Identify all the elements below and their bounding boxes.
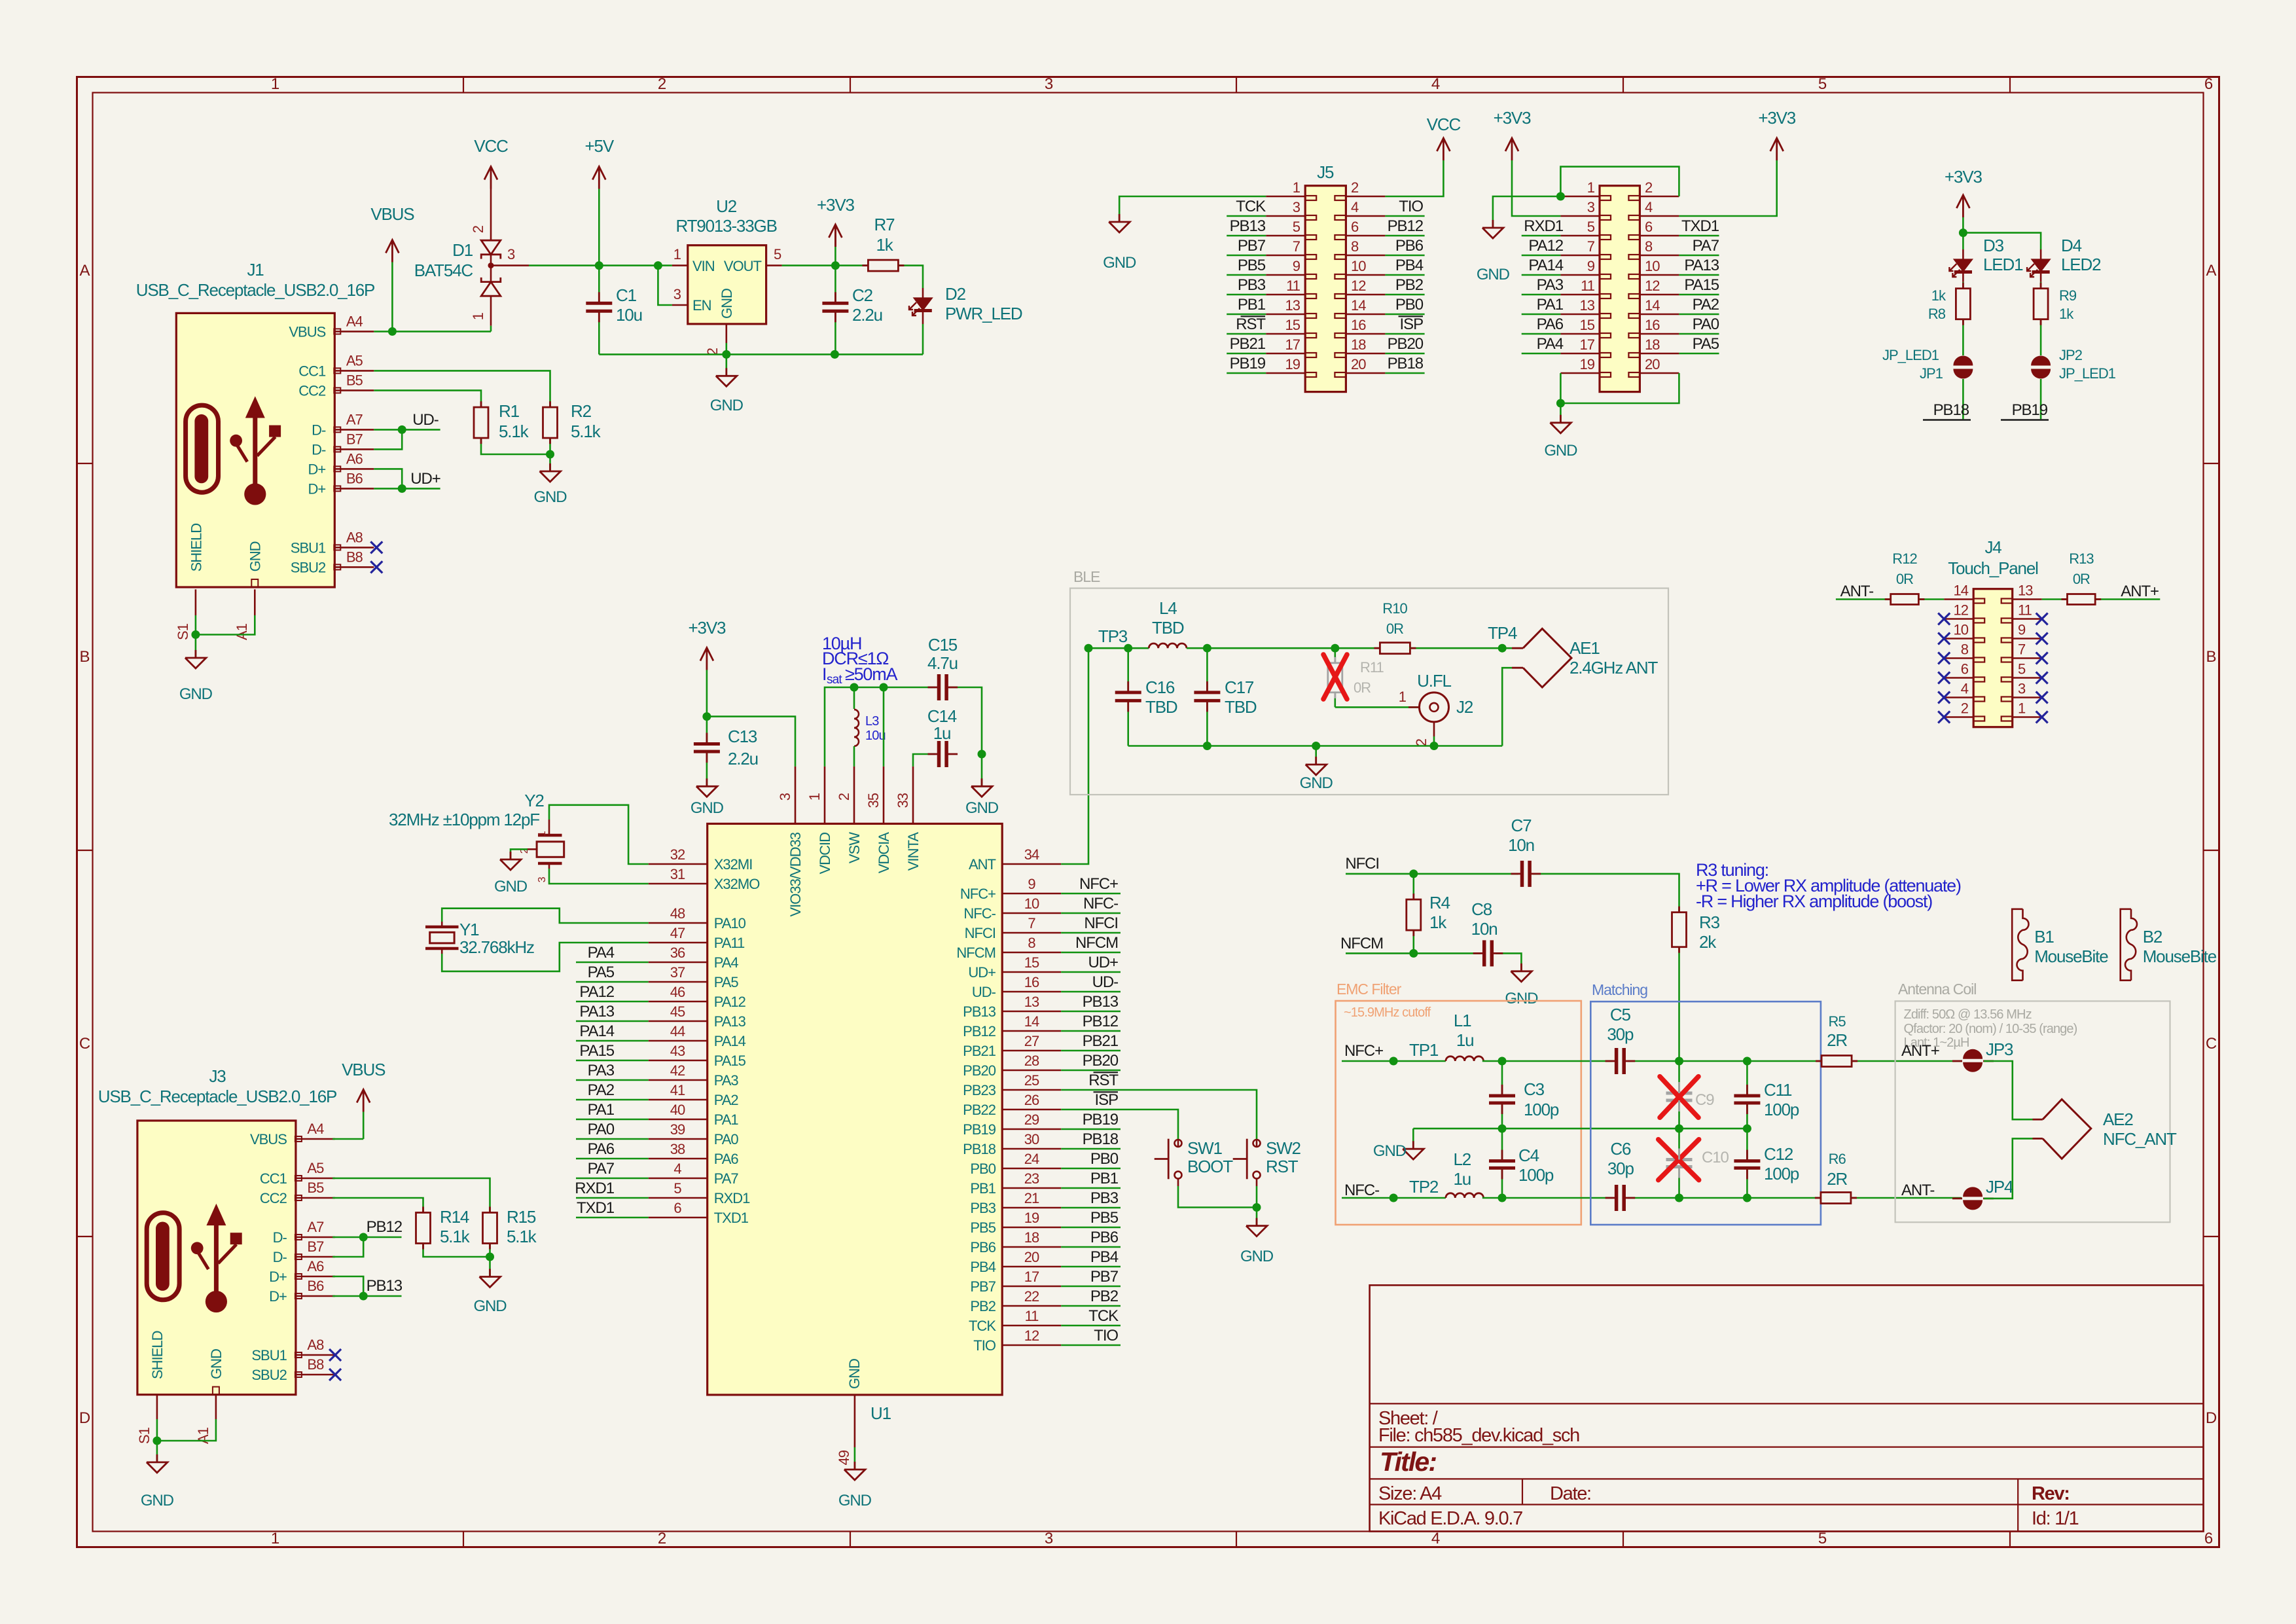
svg-text:TP4: TP4: [1488, 623, 1517, 643]
connector J3 USB-C receptacle icon: [147, 1213, 179, 1300]
svg-text:D+: D+: [269, 1288, 287, 1305]
junction: [1430, 742, 1439, 750]
resistor R5: [1821, 1056, 1852, 1067]
wire: [1628, 1060, 1821, 1062]
connector J5 pin 14: [1346, 314, 1385, 316]
junction: [398, 484, 406, 493]
svg-text:BLE: BLE: [1073, 568, 1100, 585]
wire: [576, 1138, 649, 1140]
svg-text:R13: R13: [2069, 550, 2094, 567]
wire: [2095, 598, 2160, 600]
wire: [1560, 167, 1679, 196]
diode D1 pin 3: [491, 264, 529, 266]
connector J5 pin 2: [1346, 196, 1385, 198]
wire: [1560, 403, 1562, 423]
svg-text:R9: R9: [2059, 287, 2077, 304]
MCU U1 pin 20 PB4: [1002, 1266, 1061, 1268]
connector J4 pin 10: [1944, 638, 1973, 640]
svg-text:C10: C10: [1702, 1149, 1729, 1166]
svg-text:TP3: TP3: [1098, 626, 1128, 646]
svg-text:A6: A6: [307, 1258, 324, 1274]
svg-text:1k: 1k: [1429, 912, 1447, 932]
svg-text:PA1: PA1: [588, 1101, 615, 1119]
wire: [1256, 1186, 1258, 1208]
MCU U1 pin 2 VSW: [853, 767, 855, 824]
wire: [1061, 932, 1121, 934]
svg-text:RST: RST: [1266, 1157, 1299, 1176]
svg-text:C2: C2: [852, 285, 873, 305]
svg-text:100p: 100p: [1524, 1100, 1559, 1119]
wire: [1851, 1197, 1962, 1199]
MCU U1 pin 5 RXD1: [649, 1197, 708, 1199]
connector J1 pin A5 CC1: [334, 370, 374, 372]
svg-text:B6: B6: [307, 1278, 324, 1294]
ground: [194, 650, 196, 658]
wire: [1533, 874, 1679, 912]
svg-text:23: 23: [1024, 1170, 1039, 1187]
svg-text:9: 9: [1293, 258, 1300, 274]
connector J3 pin B7 D-: [296, 1256, 335, 1258]
svg-text:PA3: PA3: [714, 1072, 739, 1089]
svg-text:JP_LED1: JP_LED1: [2059, 365, 2116, 382]
svg-text:NFC+: NFC+: [1344, 1042, 1383, 1060]
svg-text:PA1: PA1: [714, 1111, 739, 1128]
svg-text:VIN: VIN: [692, 258, 715, 274]
svg-text:C15: C15: [928, 635, 958, 655]
wire: [1061, 1344, 1121, 1346]
svg-text:J4: J4: [1984, 537, 2001, 557]
wire: [1342, 1197, 1446, 1199]
svg-text:5: 5: [774, 246, 781, 262]
wire: [1501, 1168, 1503, 1198]
wire: [1836, 598, 1891, 600]
svg-text:3: 3: [537, 876, 548, 882]
svg-text:10u: 10u: [865, 729, 886, 743]
wire: [1482, 1060, 1613, 1062]
wire: [598, 189, 600, 266]
svg-text:PB5: PB5: [1090, 1209, 1119, 1227]
ground: [156, 1454, 158, 1462]
wire: [1984, 1061, 2033, 1119]
svg-text:J3: J3: [209, 1066, 226, 1086]
svg-text:R2: R2: [571, 401, 592, 421]
svg-text:GND: GND: [141, 1492, 174, 1509]
connector J4 pin 13: [2013, 598, 2042, 600]
svg-text:32MHz ±10ppm 12pF: 32MHz ±10ppm 12pF: [389, 810, 539, 829]
svg-text:45: 45: [670, 1003, 685, 1020]
svg-text:R6: R6: [1829, 1151, 1846, 1167]
svg-text:BOOT: BOOT: [1187, 1157, 1233, 1176]
MCU U1 pin 1 VDCID: [824, 767, 826, 824]
connector J5 pin 9: [1266, 274, 1305, 276]
svg-text:GND: GND: [533, 488, 567, 506]
connector J5 pin 15: [1266, 333, 1305, 335]
svg-text:12: 12: [1954, 602, 1969, 619]
connector J3 pin A6 D+: [296, 1276, 335, 1278]
svg-text:PA5: PA5: [588, 964, 615, 981]
svg-text:NFCI: NFCI: [965, 925, 996, 941]
MCU U1 pin 41 PA2: [649, 1099, 708, 1101]
no-connect J4 pin 8: [1938, 653, 1950, 664]
svg-text:VBUS: VBUS: [289, 323, 325, 340]
junction: [398, 425, 406, 434]
svg-text:TCK: TCK: [1236, 198, 1266, 215]
svg-text:1: 1: [1587, 179, 1595, 196]
svg-text:2R: 2R: [1827, 1169, 1847, 1189]
svg-text:PB1: PB1: [1238, 296, 1266, 314]
junction: [546, 450, 554, 459]
ground: [1412, 1141, 1414, 1149]
junction: [152, 1437, 161, 1445]
MCU U1 pin 12 TIO: [1002, 1344, 1061, 1346]
MCU U1 pin 32 X32MI: [649, 863, 708, 865]
svg-text:Zdiff: 50Ω @ 13.56 MHz: Zdiff: 50Ω @ 13.56 MHz: [1904, 1007, 2032, 1022]
svg-text:UD-: UD-: [412, 411, 439, 429]
wire: [706, 717, 708, 744]
svg-text:D4: D4: [2061, 236, 2082, 255]
svg-text:A8: A8: [307, 1337, 324, 1353]
connector J6 pin 4: [1640, 215, 1679, 217]
power symbol VBUS: [386, 240, 399, 253]
svg-text:A4: A4: [307, 1121, 324, 1137]
connector J3 pin S1: [156, 1395, 158, 1419]
svg-text:+3V3: +3V3: [1494, 108, 1531, 128]
svg-text:1: 1: [537, 831, 548, 837]
wire: [1061, 1246, 1121, 1248]
MCU U1 pin 48 PA10: [649, 922, 708, 924]
svg-text:PB18: PB18: [1388, 355, 1424, 372]
fiducial B1 MouseBite: [2012, 909, 2028, 981]
svg-text:PB12: PB12: [1388, 217, 1424, 235]
junction: [1556, 192, 1565, 201]
ground: [1560, 415, 1562, 423]
MCU U1 pin 26 PB22: [1002, 1109, 1061, 1111]
junction: [831, 261, 840, 270]
svg-text:13: 13: [1285, 297, 1300, 314]
svg-text:49: 49: [836, 1450, 852, 1465]
svg-text:2: 2: [658, 75, 666, 93]
svg-text:C8: C8: [1471, 899, 1492, 919]
svg-text:10n: 10n: [1508, 835, 1534, 855]
svg-text:Touch_Panel: Touch_Panel: [1948, 558, 2038, 578]
svg-text:PB21: PB21: [963, 1043, 996, 1059]
MCU U1 pin 4 PA7: [649, 1178, 708, 1180]
svg-text:TBD: TBD: [1145, 697, 1177, 717]
svg-text:PB1: PB1: [970, 1180, 996, 1197]
section box Antenna Coil: [1895, 1001, 2170, 1222]
svg-text:R4: R4: [1429, 893, 1450, 912]
svg-text:CC1: CC1: [260, 1170, 287, 1187]
svg-text:RST: RST: [1088, 1072, 1119, 1089]
wire: [854, 1447, 856, 1470]
no-connect J3 SBU2: [329, 1369, 341, 1380]
svg-text:PA15: PA15: [714, 1053, 746, 1069]
wire: [1918, 598, 1944, 600]
svg-text:SBU2: SBU2: [251, 1367, 287, 1383]
svg-text:16: 16: [1024, 974, 1039, 990]
svg-text:40: 40: [670, 1102, 685, 1118]
wire: [332, 1237, 363, 1257]
resistor R6: [1821, 1193, 1851, 1204]
connector J2 pin 1: [1408, 706, 1420, 708]
wire: [332, 1295, 401, 1297]
svg-text:TBD: TBD: [1225, 697, 1257, 717]
svg-text:S1: S1: [175, 623, 191, 640]
wire: [195, 635, 197, 659]
connector J4 pin 8: [1944, 657, 1973, 659]
no-connect J4 pin 6: [1938, 672, 1950, 684]
wire: [1061, 1011, 1121, 1013]
regulator U2 pin 3 EN: [672, 304, 688, 306]
svg-text:PA2: PA2: [588, 1081, 615, 1099]
svg-text:D-: D-: [312, 441, 326, 458]
junction: [486, 1253, 494, 1261]
svg-text:10: 10: [1645, 258, 1660, 274]
svg-text:18: 18: [1645, 336, 1660, 353]
svg-text:RT9013-33GB: RT9013-33GB: [675, 216, 776, 236]
svg-text:2.2u: 2.2u: [852, 305, 882, 325]
wire: [782, 264, 869, 266]
svg-text:BAT54C: BAT54C: [414, 261, 473, 280]
connector J6 pin 11: [1560, 294, 1600, 296]
svg-text:C12: C12: [1764, 1144, 1793, 1164]
svg-text:12: 12: [1645, 278, 1660, 294]
svg-text:PA13: PA13: [714, 1013, 746, 1030]
regulator U2 pin 1 VIN: [672, 264, 688, 266]
svg-text:SBU1: SBU1: [251, 1347, 287, 1363]
wire: [1679, 353, 1719, 355]
connector J1 pin B7 D-: [334, 448, 374, 450]
svg-text:GND: GND: [1373, 1142, 1407, 1160]
svg-text:PB6: PB6: [1090, 1229, 1119, 1246]
svg-text:MouseBite: MouseBite: [2034, 947, 2108, 966]
svg-text:27: 27: [1024, 1033, 1039, 1049]
svg-text:A7: A7: [307, 1219, 324, 1235]
svg-text:GND: GND: [1240, 1248, 1274, 1265]
svg-text:ANT+: ANT+: [1901, 1042, 1939, 1060]
MCU U1 pin 33 VINTA: [912, 767, 914, 824]
connector J4 pin 14: [1944, 598, 1973, 600]
svg-text:B8: B8: [307, 1356, 324, 1373]
wire: [549, 869, 649, 884]
svg-text:5: 5: [1587, 219, 1595, 235]
svg-text:3: 3: [507, 246, 515, 262]
connector J5 pin 1: [1266, 196, 1305, 198]
svg-text:R12: R12: [1892, 550, 1917, 567]
wire: [1628, 1197, 1821, 1199]
ground: [1119, 214, 1121, 222]
svg-text:PB7: PB7: [1238, 237, 1266, 255]
capacitor C7: [1520, 861, 1524, 887]
svg-text:ANT: ANT: [969, 856, 996, 873]
svg-text:35: 35: [865, 793, 882, 808]
wire: [1227, 372, 1266, 374]
svg-text:PA10: PA10: [714, 915, 746, 931]
wire: [1127, 648, 1129, 693]
svg-text:3: 3: [1045, 1530, 1053, 1547]
svg-text:D-: D-: [312, 422, 326, 438]
junction: [722, 350, 730, 359]
svg-text:B2: B2: [2143, 927, 2162, 947]
capacitor pin stubs: [480, 401, 482, 407]
svg-text:C1: C1: [616, 285, 637, 305]
svg-text:14: 14: [1954, 583, 1969, 599]
DNP cross R11: [1323, 655, 1347, 699]
svg-text:D+: D+: [308, 480, 326, 497]
connector J1 USB trident icon: [245, 396, 265, 418]
svg-text:16: 16: [1645, 317, 1660, 333]
svg-text:PB1: PB1: [1090, 1170, 1119, 1187]
svg-text:C11: C11: [1764, 1080, 1792, 1100]
svg-text:10: 10: [1954, 622, 1969, 638]
MCU U1 pin 47 PA11: [649, 942, 708, 944]
wire: [1433, 736, 1435, 746]
wire: [391, 262, 393, 332]
wire: [374, 469, 402, 488]
MCU U1 pin 29 PB19: [1002, 1128, 1061, 1130]
junction: [359, 1233, 368, 1242]
wire: [196, 615, 255, 635]
svg-text:25: 25: [1024, 1072, 1039, 1089]
junction: [191, 630, 200, 639]
connector J6 pin 18: [1640, 353, 1679, 355]
svg-text:3: 3: [673, 286, 681, 302]
wire: [2040, 319, 2042, 355]
svg-text:NFC+: NFC+: [960, 886, 996, 902]
connector J5 pin 20: [1346, 372, 1385, 374]
svg-text:20: 20: [1645, 356, 1660, 372]
svg-text:B1: B1: [2034, 927, 2054, 947]
svg-text:VCC: VCC: [1427, 115, 1461, 134]
svg-text:VDCIA: VDCIA: [876, 832, 892, 874]
wire: [1061, 1207, 1121, 1209]
svg-text:L1: L1: [1454, 1011, 1471, 1030]
wire: [726, 343, 728, 354]
wire: [1061, 1286, 1121, 1288]
wire: [1512, 160, 1560, 216]
svg-text:5.1k: 5.1k: [440, 1227, 471, 1246]
svg-text:TP1: TP1: [1409, 1040, 1439, 1060]
wire: [576, 1217, 649, 1219]
wire: [1678, 947, 1680, 1061]
svg-text:R3: R3: [1699, 912, 1720, 932]
svg-text:PB21: PB21: [1230, 335, 1266, 353]
wire: [599, 353, 923, 355]
svg-text:+5V: +5V: [585, 136, 615, 156]
MCU U1 pin 36 PA4: [649, 962, 708, 964]
wire: [332, 1178, 490, 1213]
svg-text:10n: 10n: [1471, 919, 1498, 939]
svg-text:32.768kHz: 32.768kHz: [459, 937, 534, 957]
svg-text:VSW: VSW: [846, 832, 863, 863]
crystal Y2 pin 2 to GND: [528, 848, 537, 850]
MCU U1 pin 34 ANT: [1002, 863, 1061, 865]
connector J1 pin S1: [195, 589, 197, 615]
connector J4 pin 11: [2013, 618, 2042, 620]
svg-text:PB0: PB0: [1395, 296, 1424, 314]
connector J3 pin B5 CC2: [296, 1197, 335, 1199]
svg-text:5.1k: 5.1k: [571, 422, 601, 441]
wire: [1502, 668, 1512, 746]
wire: [576, 1197, 649, 1199]
connector J5 pin 16: [1346, 333, 1385, 335]
wire: [1088, 647, 1149, 649]
svg-text:A5: A5: [307, 1160, 324, 1176]
wire: [834, 247, 836, 266]
ground: [725, 368, 727, 376]
svg-text:2: 2: [470, 225, 486, 233]
power symbol VBUS: [357, 1090, 370, 1103]
svg-text:PA14: PA14: [714, 1033, 746, 1049]
svg-text:Matching: Matching: [1592, 981, 1647, 998]
connector J5 pin 6: [1346, 235, 1385, 237]
svg-text:AE2: AE2: [2103, 1110, 2133, 1129]
svg-text:R10: R10: [1382, 600, 1407, 617]
svg-text:11: 11: [1581, 278, 1595, 294]
wire: [981, 754, 983, 786]
junction: [1498, 644, 1507, 653]
resistor R7: [868, 260, 898, 271]
svg-text:PA6: PA6: [588, 1140, 615, 1158]
wire: [1413, 1128, 1748, 1130]
DNP cross C9: [1660, 1077, 1698, 1118]
connector J3 body: [137, 1121, 296, 1395]
junction: [1253, 1203, 1261, 1212]
wire: [1412, 1128, 1414, 1149]
wire: [1679, 255, 1719, 257]
svg-text:PA3: PA3: [588, 1062, 615, 1079]
wire: [1679, 274, 1719, 276]
svg-text:B: B: [2206, 648, 2216, 666]
svg-text:ANT-: ANT-: [1901, 1182, 1934, 1199]
wire: [1413, 874, 1415, 899]
wire: [1127, 700, 1129, 746]
wire: [576, 981, 649, 983]
svg-text:File: ch585_dev.kicad_sch: File: ch585_dev.kicad_sch: [1378, 1425, 1579, 1446]
svg-text:B6: B6: [346, 470, 363, 486]
svg-text:VBUS: VBUS: [250, 1131, 287, 1147]
junction: [978, 750, 986, 759]
wire: [1061, 1110, 1178, 1140]
svg-text:JP3: JP3: [1986, 1039, 2013, 1059]
connector J5 pin 11: [1266, 294, 1305, 296]
junction: [1409, 949, 1418, 958]
svg-text:1u: 1u: [1454, 1169, 1471, 1189]
MCU U1 pin 22 PB2: [1002, 1305, 1061, 1307]
svg-text:C7: C7: [1511, 816, 1532, 835]
svg-text:PB0: PB0: [970, 1161, 996, 1177]
wire: [576, 1001, 649, 1003]
svg-text:3: 3: [1045, 75, 1053, 93]
sheet row ticks: [77, 463, 93, 464]
svg-text:USB_C_Receptacle_USB2.0_16P: USB_C_Receptacle_USB2.0_16P: [98, 1087, 336, 1106]
svg-text:NFC-: NFC-: [1344, 1182, 1379, 1199]
svg-text:VINTA: VINTA: [905, 832, 922, 871]
capacitor C15: [937, 674, 941, 700]
power symbol +3V3: [829, 225, 842, 238]
svg-text:8: 8: [1028, 935, 1035, 951]
svg-text:ISP: ISP: [1400, 316, 1424, 333]
svg-text:VOUT: VOUT: [724, 258, 762, 274]
svg-text:12: 12: [1024, 1327, 1039, 1344]
svg-text:PA15: PA15: [1684, 276, 1719, 294]
svg-text:VCC: VCC: [474, 136, 508, 156]
wire: [374, 488, 440, 490]
svg-text:TIO: TIO: [1399, 198, 1423, 215]
connector J3 pin A4 VBUS: [296, 1138, 335, 1140]
svg-text:A1: A1: [234, 623, 250, 640]
svg-text:PWR_LED: PWR_LED: [945, 304, 1022, 323]
